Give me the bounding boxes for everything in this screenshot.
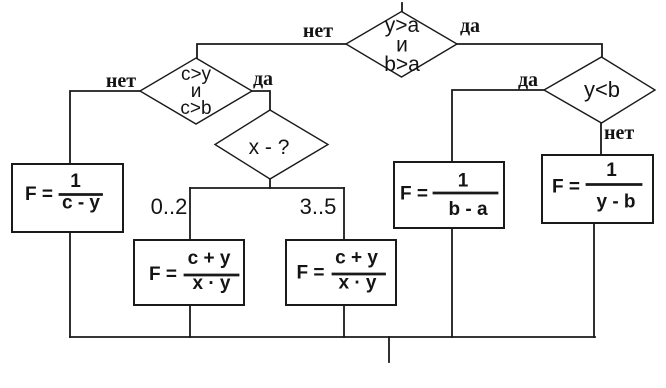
fraction bar P5: [587, 183, 641, 186]
text of D2: [180, 64, 211, 119]
svg-text:x - ?: x - ?: [249, 136, 290, 159]
svg-text:x · y: x · y: [192, 273, 230, 294]
text of D1: [384, 14, 420, 76]
svg-text:b>a: b>a: [384, 53, 420, 76]
svg-text:x · y: x · y: [338, 273, 376, 294]
text of P4: [400, 171, 488, 221]
process P4 box F=1/(b-a): [394, 162, 504, 228]
decision D1 y>a и b>a: [346, 12, 457, 78]
process P5 box F=1/(y-b): [542, 155, 653, 223]
wire branch bar: [190, 187, 344, 189]
svg-text:F =: F =: [149, 264, 177, 285]
decision D2 c>y и c>b: [140, 58, 252, 124]
svg-text:c>b: c>b: [180, 98, 211, 119]
wire P1 to collector: [69, 232, 71, 337]
svg-text:c - y: c - y: [62, 193, 100, 214]
wire D1 да branch: [457, 44, 602, 57]
svg-text:1: 1: [606, 160, 617, 181]
svg-text:b - a: b - a: [448, 199, 487, 220]
wire P2 to collector: [189, 305, 191, 337]
fraction bar P1: [60, 193, 102, 196]
wire exit tick: [388, 337, 390, 362]
svg-text:F =: F =: [552, 177, 580, 198]
wire P3 to collector: [343, 305, 345, 337]
wire D3 bottom to branch bar: [269, 179, 271, 188]
svg-text:F =: F =: [297, 263, 325, 284]
svg-text:да: да: [518, 69, 538, 91]
process P2 box F=(c+y)/(x*y) left: [134, 240, 244, 305]
svg-text:нет: нет: [604, 122, 634, 144]
svg-text:3..5: 3..5: [300, 194, 337, 219]
svg-text:да: да: [460, 15, 480, 37]
wire left case branch down: [189, 188, 191, 240]
wire P5 to collector: [593, 223, 595, 337]
svg-text:да: да: [253, 68, 273, 90]
wire D4 нет branch: [600, 123, 602, 155]
wire P4 to collector: [451, 228, 453, 337]
svg-text:0..2: 0..2: [151, 194, 188, 219]
svg-text:нет: нет: [106, 70, 136, 92]
text of P5: [552, 160, 636, 213]
text of P2: [149, 248, 231, 294]
svg-text:c + y: c + y: [188, 248, 231, 269]
svg-text:1: 1: [458, 171, 469, 192]
text of P3: [297, 248, 379, 294]
svg-text:y - b: y - b: [596, 192, 635, 213]
decision D4 y<b: [544, 57, 655, 123]
text of P1: [25, 171, 100, 214]
wire collector bus: [70, 336, 595, 338]
wire right case branch down: [343, 188, 345, 240]
wire D1 нет branch: [197, 44, 346, 58]
process P3 box F=(c+y)/(x*y) right: [286, 240, 396, 305]
svg-text:F =: F =: [25, 184, 53, 205]
decision D3 x - ?: [215, 110, 328, 179]
fraction bar P3: [333, 273, 385, 276]
wire D4 да branch: [452, 90, 544, 162]
svg-text:нет: нет: [303, 20, 333, 42]
svg-text:y<b: y<b: [584, 77, 620, 102]
fraction bar P2: [185, 274, 238, 277]
svg-text:1: 1: [70, 171, 81, 192]
svg-text:F =: F =: [400, 184, 428, 205]
fraction bar P4: [434, 192, 497, 195]
wire entry tick into decision D1: [401, 3, 403, 12]
wire D2 да branch: [252, 91, 270, 110]
process P1 box F=1/(c-y): [12, 164, 123, 232]
svg-text:c + y: c + y: [335, 248, 378, 269]
wire D2 нет branch: [70, 91, 140, 164]
